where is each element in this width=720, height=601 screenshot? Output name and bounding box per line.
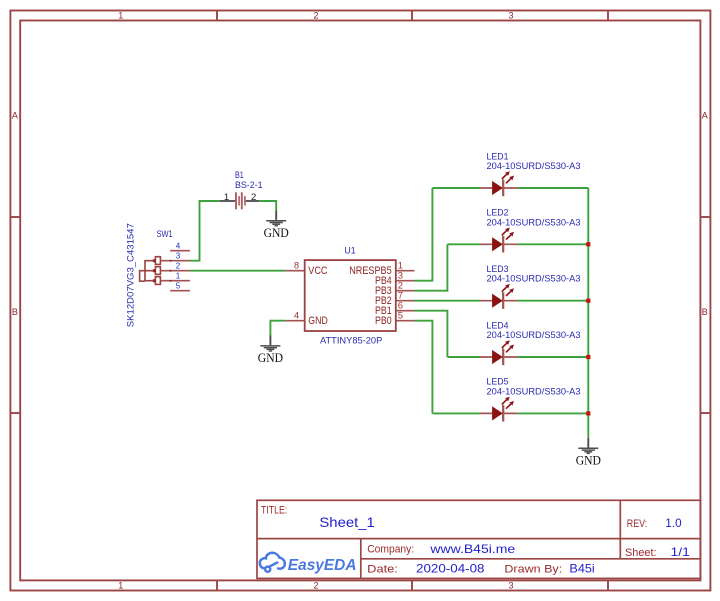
svg-text:2020-04-08: 2020-04-08 [416, 561, 485, 575]
svg-text:204-10SURD/S530-A3: 204-10SURD/S530-A3 [487, 161, 581, 172]
svg-text:5: 5 [398, 311, 403, 322]
svg-text:1: 1 [224, 192, 229, 203]
svg-text:5: 5 [176, 282, 181, 291]
svg-text:204-10SURD/S530-A3: 204-10SURD/S530-A3 [487, 274, 581, 285]
svg-text:3: 3 [508, 580, 513, 590]
svg-text:BS-2-1: BS-2-1 [235, 180, 263, 191]
svg-text:1: 1 [118, 11, 123, 21]
svg-text:1.0: 1.0 [665, 516, 682, 530]
svg-text:ATTINY85-20P: ATTINY85-20P [320, 335, 382, 346]
svg-text:B45i: B45i [569, 561, 594, 575]
svg-text:www.B45i.me: www.B45i.me [429, 542, 515, 556]
svg-text:204-10SURD/S530-A3: 204-10SURD/S530-A3 [487, 330, 581, 341]
svg-text:Sheet:: Sheet: [625, 547, 657, 559]
svg-text:VCC: VCC [308, 265, 327, 277]
svg-text:EasyEDA: EasyEDA [288, 557, 357, 574]
svg-text:1: 1 [118, 580, 123, 590]
svg-text:A: A [12, 111, 18, 121]
svg-text:PB0: PB0 [375, 315, 392, 327]
svg-text:4: 4 [176, 242, 181, 251]
svg-text:204-10SURD/S530-A3: 204-10SURD/S530-A3 [487, 386, 581, 397]
svg-text:B: B [12, 307, 18, 317]
svg-text:3: 3 [508, 11, 513, 21]
svg-text:2: 2 [176, 262, 181, 271]
svg-text:SK12D07VG3_C431547: SK12D07VG3_C431547 [125, 223, 136, 327]
svg-text:4: 4 [294, 311, 299, 322]
svg-text:3: 3 [176, 252, 181, 261]
svg-text:Date:: Date: [367, 563, 398, 575]
svg-text:B: B [702, 307, 708, 317]
svg-text:2: 2 [251, 192, 256, 203]
svg-text:204-10SURD/S530-A3: 204-10SURD/S530-A3 [487, 217, 581, 228]
svg-text:2: 2 [313, 11, 318, 21]
svg-text:SW1: SW1 [157, 229, 173, 240]
svg-text:Sheet_1: Sheet_1 [319, 514, 375, 530]
svg-text:U1: U1 [344, 245, 355, 256]
svg-text:8: 8 [294, 261, 299, 272]
svg-text:GND: GND [308, 315, 328, 327]
svg-text:2: 2 [313, 580, 318, 590]
svg-text:Drawn By:: Drawn By: [504, 563, 562, 575]
svg-text:1/1: 1/1 [671, 545, 691, 559]
svg-text:A: A [702, 111, 708, 121]
svg-text:REV:: REV: [627, 518, 647, 530]
svg-text:Company:: Company: [367, 544, 414, 556]
svg-text:1: 1 [176, 272, 181, 281]
svg-text:TITLE:: TITLE: [261, 505, 287, 517]
